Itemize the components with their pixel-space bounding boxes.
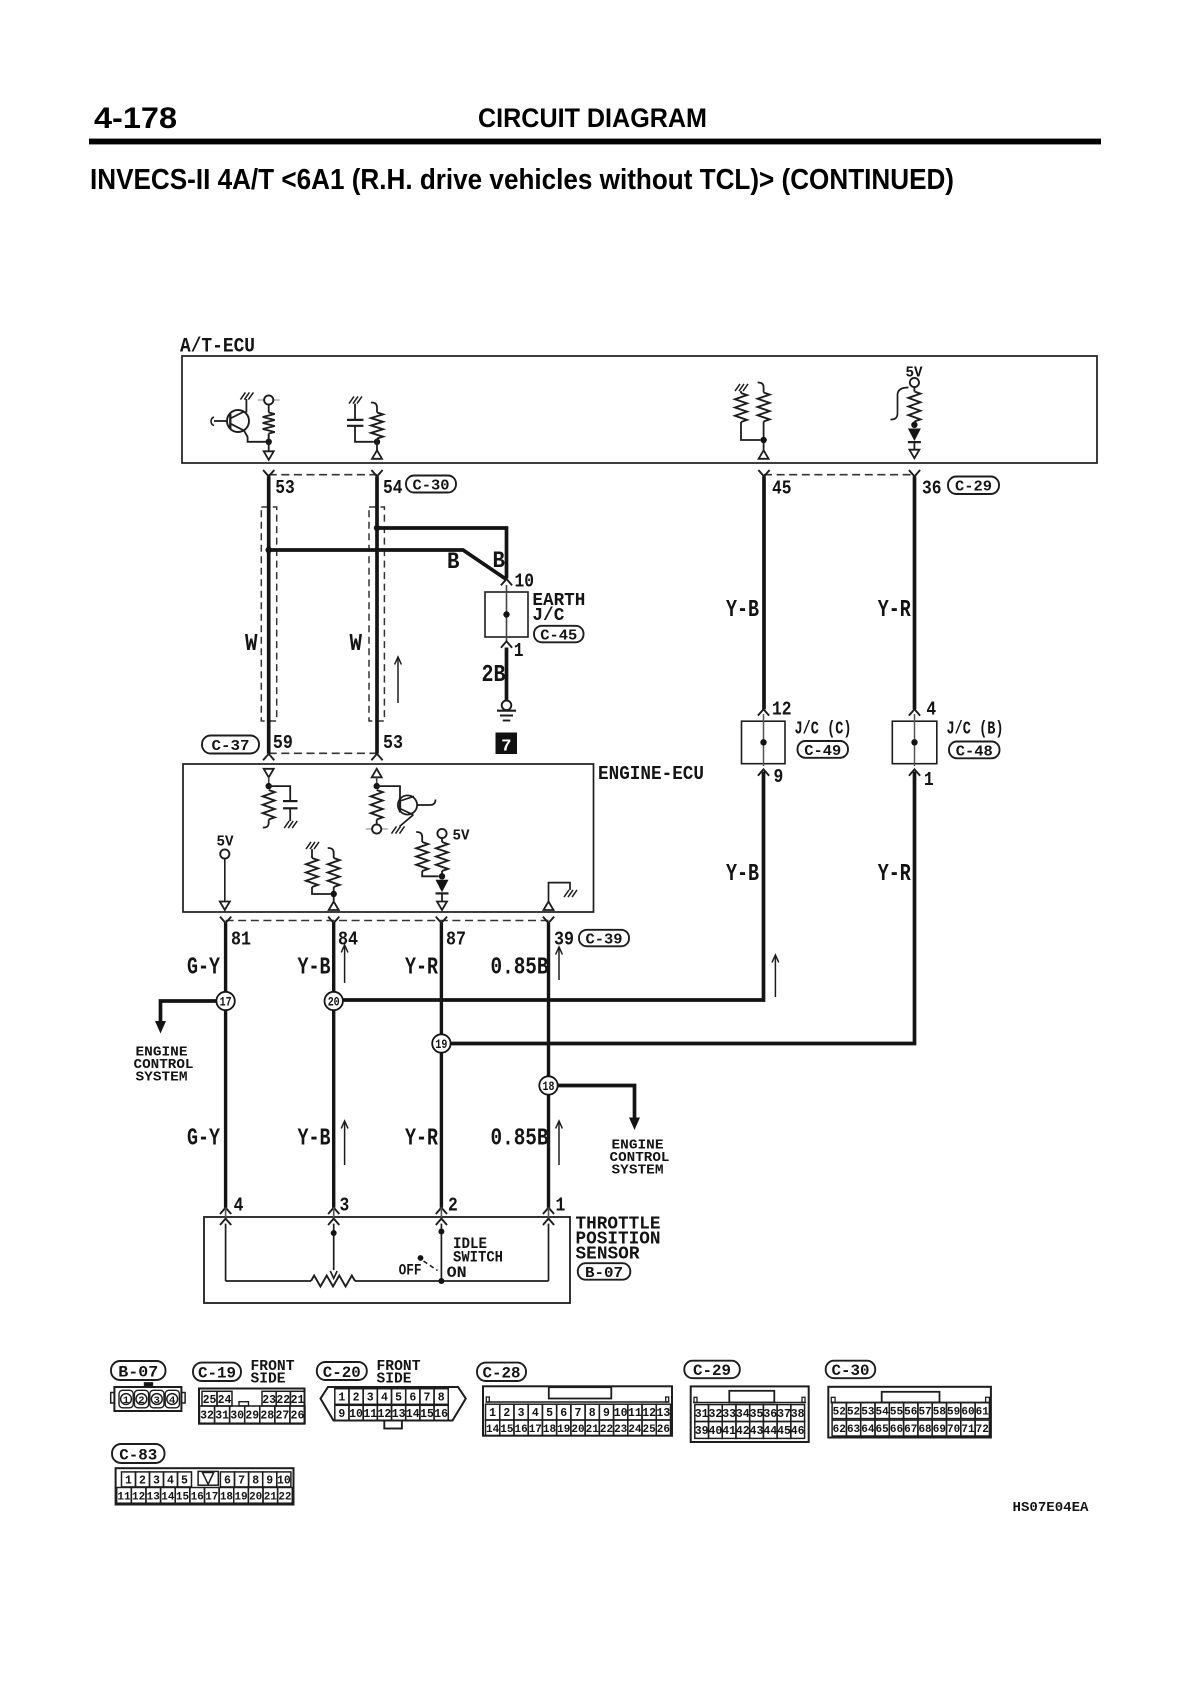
svg-text:4-178: 4-178 bbox=[94, 102, 177, 135]
svg-text:C-48: C-48 bbox=[956, 743, 993, 760]
svg-text:J/C (B): J/C (B) bbox=[947, 720, 1004, 740]
svg-text:SYSTEM: SYSTEM bbox=[136, 1069, 188, 1085]
svg-text:69: 69 bbox=[933, 1424, 946, 1436]
svg-text:15: 15 bbox=[176, 1491, 190, 1503]
svg-text:24: 24 bbox=[628, 1424, 642, 1436]
svg-text:1: 1 bbox=[125, 1475, 132, 1488]
svg-text:45: 45 bbox=[772, 478, 792, 500]
svg-text:12: 12 bbox=[132, 1491, 145, 1503]
svg-text:22: 22 bbox=[600, 1424, 613, 1436]
svg-text:70: 70 bbox=[947, 1424, 960, 1436]
svg-text:39: 39 bbox=[554, 929, 574, 951]
svg-text:1: 1 bbox=[338, 1392, 345, 1405]
svg-text:3: 3 bbox=[518, 1407, 525, 1420]
svg-text:68: 68 bbox=[918, 1424, 932, 1436]
svg-text:16: 16 bbox=[434, 1408, 448, 1421]
svg-text:53: 53 bbox=[383, 732, 403, 754]
svg-text:23: 23 bbox=[614, 1424, 628, 1436]
svg-text:62: 62 bbox=[833, 1424, 846, 1436]
svg-text:B-07: B-07 bbox=[118, 1363, 158, 1381]
svg-text:Y-R: Y-R bbox=[405, 1126, 438, 1153]
svg-text:Y-R: Y-R bbox=[878, 861, 911, 888]
svg-text:9: 9 bbox=[338, 1408, 345, 1421]
svg-text:19: 19 bbox=[234, 1491, 247, 1503]
svg-text:6: 6 bbox=[409, 1392, 416, 1405]
svg-text:11: 11 bbox=[628, 1407, 642, 1420]
svg-text:54: 54 bbox=[383, 477, 403, 499]
svg-text:44: 44 bbox=[763, 1425, 777, 1438]
svg-text:0.85B: 0.85B bbox=[491, 1126, 549, 1153]
svg-text:72: 72 bbox=[976, 1424, 989, 1436]
svg-text:6: 6 bbox=[224, 1475, 231, 1488]
svg-text:CIRCUIT DIAGRAM: CIRCUIT DIAGRAM bbox=[478, 103, 707, 133]
svg-text:52: 52 bbox=[833, 1407, 846, 1419]
svg-text:3: 3 bbox=[153, 1475, 160, 1488]
svg-text:3: 3 bbox=[367, 1392, 374, 1405]
svg-text:12: 12 bbox=[772, 699, 792, 721]
svg-text:30: 30 bbox=[230, 1410, 244, 1423]
svg-text:15: 15 bbox=[420, 1408, 434, 1421]
svg-text:64: 64 bbox=[861, 1424, 875, 1436]
svg-text:7: 7 bbox=[501, 738, 511, 757]
svg-text:46: 46 bbox=[791, 1425, 805, 1438]
svg-text:1: 1 bbox=[924, 769, 934, 791]
svg-text:32: 32 bbox=[708, 1408, 722, 1421]
svg-text:HS07E04EA: HS07E04EA bbox=[1013, 1501, 1090, 1516]
svg-text:34: 34 bbox=[736, 1408, 750, 1421]
svg-text:28: 28 bbox=[260, 1410, 274, 1423]
svg-text:18: 18 bbox=[220, 1491, 234, 1503]
svg-text:37: 37 bbox=[777, 1408, 791, 1421]
svg-text:33: 33 bbox=[722, 1408, 736, 1421]
svg-text:14: 14 bbox=[486, 1424, 500, 1436]
svg-text:J/C (C): J/C (C) bbox=[795, 720, 852, 740]
svg-text:12: 12 bbox=[642, 1407, 656, 1420]
svg-text:0.85B: 0.85B bbox=[491, 955, 549, 982]
svg-text:B: B bbox=[447, 549, 460, 575]
svg-text:C-19: C-19 bbox=[198, 1365, 236, 1383]
svg-text:19: 19 bbox=[557, 1424, 570, 1436]
svg-text:6: 6 bbox=[560, 1407, 567, 1420]
svg-text:31: 31 bbox=[695, 1408, 709, 1421]
svg-text:SENSOR: SENSOR bbox=[576, 1244, 640, 1264]
svg-text:4: 4 bbox=[234, 1195, 244, 1217]
svg-text:4: 4 bbox=[169, 1395, 175, 1407]
svg-text:INVECS-II 4A/T <6A1 (R.H. driv: INVECS-II 4A/T <6A1 (R.H. drive vehicles… bbox=[90, 164, 954, 196]
svg-text:C-29: C-29 bbox=[693, 1362, 731, 1380]
svg-text:SIDE: SIDE bbox=[251, 1371, 286, 1387]
svg-text:OFF: OFF bbox=[399, 1262, 422, 1280]
svg-text:4: 4 bbox=[532, 1407, 539, 1420]
svg-text:1: 1 bbox=[489, 1407, 496, 1420]
svg-text:21: 21 bbox=[586, 1424, 600, 1436]
svg-text:Y-R: Y-R bbox=[405, 955, 438, 982]
svg-text:5: 5 bbox=[395, 1392, 402, 1405]
svg-text:4: 4 bbox=[381, 1392, 388, 1405]
svg-text:11: 11 bbox=[363, 1408, 377, 1421]
svg-text:5: 5 bbox=[181, 1475, 188, 1488]
svg-text:B: B bbox=[493, 548, 506, 574]
svg-text:16: 16 bbox=[191, 1491, 204, 1503]
svg-text:42: 42 bbox=[736, 1425, 750, 1438]
svg-text:67: 67 bbox=[904, 1424, 917, 1436]
svg-text:19: 19 bbox=[435, 1038, 447, 1052]
svg-text:3: 3 bbox=[340, 1195, 350, 1217]
svg-text:17: 17 bbox=[205, 1491, 218, 1503]
svg-text:2: 2 bbox=[448, 1195, 458, 1217]
svg-text:35: 35 bbox=[750, 1408, 764, 1421]
svg-text:2: 2 bbox=[353, 1392, 360, 1405]
svg-text:39: 39 bbox=[695, 1425, 709, 1438]
svg-text:61: 61 bbox=[976, 1407, 990, 1419]
svg-text:25: 25 bbox=[643, 1424, 657, 1436]
svg-text:56: 56 bbox=[904, 1407, 917, 1419]
svg-text:11: 11 bbox=[117, 1491, 131, 1503]
svg-text:C-30: C-30 bbox=[831, 1362, 869, 1380]
svg-text:45: 45 bbox=[777, 1425, 791, 1438]
svg-text:10: 10 bbox=[277, 1475, 291, 1488]
svg-text:J/C: J/C bbox=[532, 606, 564, 626]
svg-text:ENGINE-ECU: ENGINE-ECU bbox=[598, 763, 704, 785]
svg-text:C-49: C-49 bbox=[804, 743, 841, 760]
svg-text:Y-B: Y-B bbox=[298, 955, 331, 982]
svg-text:59: 59 bbox=[273, 732, 293, 754]
svg-text:58: 58 bbox=[933, 1407, 947, 1419]
svg-text:26: 26 bbox=[657, 1424, 670, 1436]
svg-text:38: 38 bbox=[791, 1408, 805, 1421]
svg-text:65: 65 bbox=[876, 1424, 890, 1436]
svg-text:G-Y: G-Y bbox=[187, 1126, 220, 1153]
svg-text:1: 1 bbox=[556, 1195, 566, 1217]
svg-text:21: 21 bbox=[264, 1491, 278, 1503]
svg-text:C-45: C-45 bbox=[540, 627, 577, 644]
svg-text:ON: ON bbox=[447, 1264, 467, 1282]
svg-text:A/T-ECU: A/T-ECU bbox=[180, 335, 255, 358]
svg-text:SYSTEM: SYSTEM bbox=[612, 1162, 664, 1178]
svg-text:22: 22 bbox=[278, 1491, 291, 1503]
svg-text:2B: 2B bbox=[482, 662, 506, 689]
svg-text:13: 13 bbox=[147, 1491, 161, 1503]
svg-text:2: 2 bbox=[139, 1475, 146, 1488]
svg-text:5: 5 bbox=[546, 1407, 553, 1420]
svg-text:81: 81 bbox=[231, 929, 251, 951]
svg-text:20: 20 bbox=[571, 1424, 584, 1436]
svg-text:17: 17 bbox=[529, 1424, 542, 1436]
svg-text:8: 8 bbox=[252, 1475, 259, 1488]
svg-text:Y-B: Y-B bbox=[298, 1126, 331, 1153]
svg-text:84: 84 bbox=[338, 929, 358, 951]
svg-text:40: 40 bbox=[708, 1425, 722, 1438]
svg-text:10: 10 bbox=[515, 571, 535, 593]
svg-text:14: 14 bbox=[406, 1408, 420, 1421]
svg-text:3: 3 bbox=[154, 1395, 160, 1407]
svg-text:9: 9 bbox=[266, 1475, 273, 1488]
svg-text:10: 10 bbox=[614, 1407, 628, 1420]
svg-text:8: 8 bbox=[589, 1407, 596, 1420]
svg-text:55: 55 bbox=[890, 1407, 904, 1419]
svg-text:10: 10 bbox=[349, 1408, 363, 1421]
svg-text:C-37: C-37 bbox=[212, 738, 250, 755]
svg-text:27: 27 bbox=[275, 1410, 289, 1423]
svg-text:87: 87 bbox=[446, 929, 466, 951]
svg-text:20: 20 bbox=[328, 995, 340, 1009]
svg-text:36: 36 bbox=[922, 478, 942, 500]
svg-text:63: 63 bbox=[847, 1424, 861, 1436]
svg-text:1: 1 bbox=[514, 640, 524, 662]
svg-text:41: 41 bbox=[722, 1425, 736, 1438]
svg-text:C-30: C-30 bbox=[413, 477, 450, 494]
svg-text:54: 54 bbox=[876, 1407, 890, 1419]
svg-text:9: 9 bbox=[603, 1407, 610, 1420]
svg-text:C-83: C-83 bbox=[119, 1446, 157, 1464]
svg-text:36: 36 bbox=[763, 1408, 777, 1421]
svg-text:12: 12 bbox=[378, 1408, 392, 1421]
svg-text:Y-R: Y-R bbox=[878, 597, 911, 624]
svg-text:15: 15 bbox=[500, 1424, 514, 1436]
svg-text:4: 4 bbox=[926, 699, 936, 721]
svg-text:43: 43 bbox=[750, 1425, 764, 1438]
svg-text:B-07: B-07 bbox=[585, 1265, 623, 1282]
svg-text:22: 22 bbox=[276, 1394, 290, 1407]
svg-text:18: 18 bbox=[543, 1080, 555, 1094]
svg-text:13: 13 bbox=[656, 1407, 670, 1420]
svg-text:Y-B: Y-B bbox=[726, 861, 759, 888]
svg-text:14: 14 bbox=[161, 1491, 175, 1503]
svg-text:5V: 5V bbox=[453, 827, 470, 844]
svg-text:20: 20 bbox=[249, 1491, 262, 1503]
svg-text:C-20: C-20 bbox=[323, 1364, 361, 1382]
svg-text:18: 18 bbox=[543, 1424, 557, 1436]
svg-text:SIDE: SIDE bbox=[377, 1371, 412, 1387]
svg-text:4: 4 bbox=[167, 1475, 174, 1488]
svg-text:66: 66 bbox=[890, 1424, 903, 1436]
svg-text:5V: 5V bbox=[217, 833, 234, 850]
svg-text:25: 25 bbox=[203, 1394, 217, 1407]
svg-text:17: 17 bbox=[220, 995, 232, 1009]
svg-text:26: 26 bbox=[291, 1410, 305, 1423]
svg-text:57: 57 bbox=[918, 1407, 931, 1419]
svg-text:60: 60 bbox=[961, 1407, 974, 1419]
svg-text:32: 32 bbox=[200, 1410, 214, 1423]
svg-text:Y-B: Y-B bbox=[726, 597, 759, 624]
svg-text:71: 71 bbox=[961, 1424, 975, 1436]
svg-text:9: 9 bbox=[774, 766, 784, 788]
svg-text:7: 7 bbox=[424, 1392, 431, 1405]
svg-text:G-Y: G-Y bbox=[187, 955, 220, 982]
svg-text:13: 13 bbox=[392, 1408, 406, 1421]
svg-text:16: 16 bbox=[514, 1424, 527, 1436]
svg-text:52: 52 bbox=[847, 1407, 860, 1419]
svg-text:59: 59 bbox=[947, 1407, 960, 1419]
svg-text:7: 7 bbox=[575, 1407, 582, 1420]
svg-text:2: 2 bbox=[503, 1407, 510, 1420]
svg-text:C-29: C-29 bbox=[955, 479, 992, 496]
svg-text:W: W bbox=[245, 631, 258, 658]
svg-text:53: 53 bbox=[861, 1407, 875, 1419]
svg-text:C-28: C-28 bbox=[483, 1365, 521, 1383]
svg-text:7: 7 bbox=[238, 1475, 245, 1488]
svg-text:24: 24 bbox=[218, 1394, 232, 1407]
svg-text:1: 1 bbox=[123, 1395, 129, 1407]
svg-text:2: 2 bbox=[138, 1395, 144, 1407]
svg-text:C-39: C-39 bbox=[586, 931, 623, 948]
svg-text:W: W bbox=[350, 631, 363, 658]
svg-text:23: 23 bbox=[262, 1394, 276, 1407]
svg-text:29: 29 bbox=[245, 1410, 259, 1423]
svg-text:8: 8 bbox=[438, 1392, 445, 1405]
svg-text:21: 21 bbox=[291, 1394, 305, 1407]
svg-text:31: 31 bbox=[215, 1410, 229, 1423]
svg-text:53: 53 bbox=[275, 477, 295, 499]
